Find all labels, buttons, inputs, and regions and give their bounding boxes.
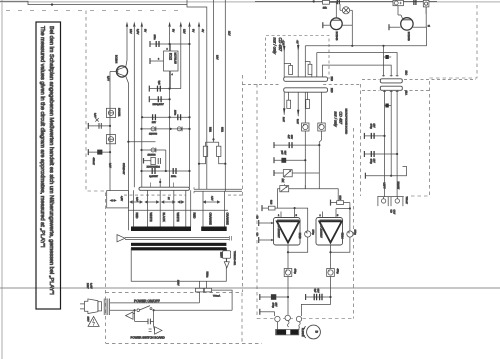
thermal switch TH1 — [223, 248, 231, 268]
svg-text:BC204B: BC204B — [335, 32, 338, 41]
capacitor pair bottom R — [306, 294, 331, 300]
svg-text:100µ: 100µ — [312, 230, 315, 236]
wire bus y45.8 to transistor — [305, 45, 426, 47]
svg-text:1mV: 1mV — [282, 117, 285, 122]
wire label-strip line — [128, 209, 228, 211]
wire thermal feed — [194, 189, 242, 191]
svg-text:21C: 21C — [404, 71, 407, 76]
wire pin 311.8 — [311, 75, 313, 77]
terminal t3 right — [365, 173, 392, 179]
capacitor at IC12 top — [150, 41, 191, 47]
core arrow symbol — [117, 235, 125, 242]
svg-text:0,1V: 0,1V — [109, 163, 112, 168]
svg-text:3µ3: 3µ3 — [158, 81, 161, 86]
DIN connector bar 21A — [380, 86, 402, 90]
input resistor R right channel — [331, 200, 350, 209]
transformer enclosure — [131, 248, 226, 281]
svg-text:0,6V: 0,6V — [94, 113, 97, 118]
node base1 — [109, 125, 111, 127]
wire line-out pin1 — [384, 90, 386, 196]
measure arrow 4 — [178, 201, 184, 203]
wire jack1 down — [276, 322, 278, 330]
winding bar primary — [131, 243, 226, 246]
svg-text:100n: 100n — [153, 35, 156, 41]
svg-text:CPL186/187: CPL186/187 — [319, 225, 322, 239]
wire output L to jack — [287, 277, 289, 315]
wire cap G down — [304, 131, 306, 189]
jack spring contact 2 — [287, 321, 289, 327]
measure arrow 3 — [162, 201, 175, 203]
more sections appended below — [88, 0, 230, 230]
IC12 MC78L05 regulator — [150, 44, 178, 89]
headphone symbol — [304, 325, 320, 339]
jack spring contact 3 — [299, 322, 300, 328]
svg-text:RED: RED — [135, 213, 139, 219]
mic terminal 2 — [274, 157, 306, 163]
wire pot to right channel — [289, 189, 339, 203]
diode row y150 — [140, 148, 165, 171]
electrolytic cap bottom L — [260, 294, 288, 300]
node top-right bus — [313, 0, 315, 2]
node cap row R — [329, 296, 331, 298]
node y45.8 b — [382, 45, 384, 47]
terminal bottom L2 — [260, 309, 275, 316]
wire line-out pin3 — [396, 90, 398, 196]
svg-text:4,5V: 4,5V — [120, 196, 123, 201]
measure arrow 1 — [130, 201, 142, 203]
svg-text:CPL186/187: CPL186/187 — [277, 225, 280, 239]
svg-text:470µ: 470µ — [370, 124, 373, 130]
pin arrow down C — [282, 92, 285, 122]
svg-text:63V: 63V — [284, 151, 287, 156]
svg-text:MC78L05: MC78L05 — [174, 53, 177, 65]
capacitor C_L1 — [99, 123, 101, 129]
svg-text:220V: 220V — [220, 252, 223, 258]
dashed line transformer top — [124, 194, 242, 196]
svg-text:CD 437: CD 437 — [339, 112, 343, 125]
wire into top connector — [159, 179, 161, 188]
output cap box L — [284, 269, 292, 277]
wire rail x226 — [224, 0, 226, 191]
svg-text:4,5V: 4,5V — [211, 196, 214, 201]
supply arrow rail 12V — [180, 22, 186, 89]
svg-text:R52: R52 — [208, 127, 211, 132]
wire DIN pin a — [383, 46, 385, 77]
diode row y129 — [140, 127, 190, 132]
svg-text:400mV: 400mV — [92, 158, 95, 166]
test point cross — [95, 118, 98, 121]
svg-text:LEFT: LEFT — [382, 183, 385, 190]
node feedback R — [349, 207, 351, 209]
svg-text:5V: 5V — [171, 29, 174, 32]
secondary pins — [133, 190, 190, 226]
svg-text:CD: CD — [256, 216, 259, 220]
svg-text:0,4W: 0,4W — [89, 283, 92, 289]
winding bar secondary left — [131, 227, 191, 232]
svg-text:POWER SWITCH BOARD: POWER SWITCH BOARD — [131, 335, 165, 339]
svg-text:RIGHT: RIGHT — [396, 182, 399, 190]
winding bar secondary right — [201, 227, 227, 232]
svg-text:IC14: IC14 — [340, 233, 344, 239]
node branch — [127, 141, 129, 143]
svg-text:9,5V: 9,5V — [136, 29, 139, 35]
wire top-left border segment — [0, 1, 187, 4]
svg-text:100µ: 100µ — [354, 230, 357, 236]
diode box top right — [423, 0, 429, 14]
svg-text:STAND-BY: STAND-BY — [122, 163, 125, 175]
dashed boundary transformer column — [242, 75, 244, 292]
connection arrow 2 — [149, 321, 162, 334]
capacitor x338 — [337, 0, 339, 4]
svg-text:12V: 12V — [183, 29, 186, 34]
svg-text:IC13: IC13 — [298, 233, 302, 239]
connection arrow left — [126, 310, 135, 321]
dashed boundary CD437 lower right — [360, 84, 362, 196]
svg-text:63V: 63V — [290, 135, 293, 140]
wire line-out pin2 — [390, 90, 392, 175]
electrolytic cap EL2 — [364, 151, 398, 157]
op-amp IC13 — [274, 218, 301, 246]
dashed boundary left board vertical — [86, 11, 106, 344]
resistor 22k top — [323, 0, 337, 9]
supply arrow rail 9,5V — [133, 22, 139, 188]
dashed boundary bottom-left horizontal — [106, 342, 263, 344]
jack body black left — [276, 330, 286, 335]
wire hook right — [391, 167, 406, 176]
svg-text:POWER ON/OFF: POWER ON/OFF — [134, 299, 160, 303]
volume pot upper section — [280, 186, 289, 192]
wire arrow down A — [282, 40, 286, 79]
svg-text:16V: 16V — [373, 159, 376, 164]
wire bus y65.1 — [323, 65, 392, 77]
svg-text:100n: 100n — [173, 110, 176, 116]
svg-text:WHITE: WHITE — [149, 213, 153, 222]
wire bus y52.5 — [317, 53, 397, 77]
core end ticks — [230, 236, 232, 241]
svg-text:nur / only: nur / only — [334, 112, 338, 128]
svg-text:ZD5601/ZD2: ZD5601/ZD2 — [147, 165, 161, 168]
capacitor C_L2 electrolytic — [97, 150, 102, 155]
connector bar 21B — [284, 77, 328, 81]
dashed boundary amp board bottom — [257, 318, 354, 320]
resistor R_A in box — [106, 108, 115, 117]
wire output L down — [287, 252, 289, 268]
dashed boundary right board — [408, 5, 477, 196]
terminal pin left2 — [87, 149, 89, 155]
svg-text:3Ω3: 3Ω3 — [269, 200, 272, 205]
wire feedback R — [349, 209, 351, 231]
supply arrow rail 4V — [198, 22, 204, 190]
resistor R_C vertical — [144, 157, 161, 164]
capacitor C162 2200u — [149, 96, 170, 102]
wire cap H down — [321, 131, 323, 140]
electrolytic cap EL1 — [364, 133, 385, 139]
svg-text:0,7V: 0,7V — [107, 76, 110, 81]
electrolytic cap box top right — [393, 0, 403, 10]
svg-text:68Ω: 68Ω — [221, 127, 224, 132]
DIN connector bar 21C — [380, 79, 402, 83]
svg-text:22V: 22V — [152, 121, 157, 124]
svg-text:21B: 21B — [330, 77, 333, 82]
svg-text:CD: CD — [389, 210, 392, 214]
wire branch y141.7 — [128, 141, 155, 143]
output cap box R — [327, 269, 335, 277]
supply arrow rail +15V — [126, 22, 132, 61]
svg-text:470µ: 470µ — [370, 159, 373, 165]
svg-text:4V: 4V — [201, 29, 204, 32]
transistor T3 BC204B — [323, 4, 353, 30]
pin wires amp R — [323, 209, 350, 218]
electrolytic circle cap R — [347, 230, 357, 238]
pin ticks DIN bottom — [383, 91, 398, 93]
wire pin 305 up — [304, 46, 306, 77]
pot gang dotted link — [283, 177, 285, 186]
resistor pair R52 — [198, 138, 227, 165]
wire pot left drop — [278, 189, 280, 208]
wire rail x207 — [187, 0, 207, 189]
wire thermal feed hooks — [193, 187, 195, 193]
lamp LA1 — [340, 4, 352, 46]
resistor hook B — [305, 62, 312, 75]
svg-text:THERMO-SW.: THERMO-SW. — [233, 251, 236, 266]
svg-text:CD: CD — [256, 233, 259, 237]
dashed boundary amp board right — [353, 128, 355, 319]
capacitor row y117 — [141, 114, 191, 120]
svg-text:470µ: 470µ — [294, 269, 297, 275]
dashed boundary CD437 upper box — [266, 36, 330, 80]
wire stub left1 — [88, 125, 110, 127]
capacitor mark DIN — [384, 55, 392, 59]
input terminal CD-L — [259, 220, 274, 226]
resistor hook F — [306, 92, 310, 108]
wire base column — [109, 72, 111, 191]
mic terminal 1 — [274, 142, 320, 148]
measure box B1 — [107, 191, 129, 208]
svg-text:BC204B: BC204B — [407, 32, 410, 41]
node output L — [287, 251, 289, 253]
wire rail x213 — [213, 0, 215, 139]
svg-text:100n: 100n — [171, 175, 177, 178]
wire from mic board into amp — [304, 185, 306, 189]
terminal pin left1 — [87, 123, 89, 129]
wire pin 316.8 up — [316, 53, 318, 77]
input resistor R303 left — [262, 205, 295, 211]
svg-text:nur / only: nur / only — [273, 38, 278, 55]
electrolytic cap box H — [318, 92, 325, 131]
input terminal CD-R — [259, 237, 274, 243]
node output R — [329, 251, 331, 253]
wire arrow down B — [296, 40, 300, 77]
svg-text:OUT: OUT — [392, 210, 395, 215]
page edge left — [1, 0, 3, 359]
wire fuse to switch — [212, 290, 233, 310]
svg-text:2200µ/16V: 2200µ/16V — [153, 103, 165, 106]
svg-text:240V: 240V — [177, 280, 180, 286]
node y45.8 a — [351, 45, 353, 47]
wire mains N — [110, 309, 135, 311]
svg-text:0V: 0V — [191, 29, 194, 32]
svg-text:-7V: -7V — [296, 40, 299, 44]
svg-text:1N4003: 1N4003 — [148, 153, 157, 156]
secondary connector bar — [139, 187, 189, 190]
wire output R down — [330, 252, 332, 268]
svg-text:470µ: 470µ — [336, 269, 339, 275]
capacitor mark DIN2 — [385, 104, 392, 108]
svg-text:T80mA: T80mA — [213, 295, 221, 298]
svg-text:-1,5V: -1,5V — [282, 40, 285, 46]
measure arrow 2 — [145, 201, 159, 203]
output pin amp R — [330, 245, 332, 252]
wire top-right bus — [255, 0, 437, 2]
svg-text:21A: 21A — [404, 91, 407, 96]
svg-text:BLACK: BLACK — [162, 213, 166, 222]
svg-text:780mV: 780mV — [405, 197, 408, 205]
node above connector — [159, 181, 161, 183]
wire output R down to jog — [301, 277, 330, 317]
dashed board boundary top-left — [6, 10, 185, 12]
supply arrow rail 8V — [141, 22, 147, 188]
mic terminal 3 + trimmer — [274, 170, 319, 177]
svg-text:16V: 16V — [215, 55, 218, 60]
supply arrow rail 5V — [168, 22, 174, 188]
svg-text:63V: 63V — [317, 289, 320, 294]
svg-text:230V: 230V — [86, 317, 89, 323]
headphone jack contact 3 — [296, 316, 301, 321]
diode D_B in box — [106, 135, 115, 144]
capacitor C160 pair top — [149, 86, 181, 92]
svg-text:IC12: IC12 — [168, 53, 172, 60]
svg-text:Bei den im Schaltplan angegebe: Bei den im Schaltplan angegebenen Meßwer… — [48, 26, 55, 295]
wire jack3 down — [298, 328, 300, 330]
note box frame — [36, 22, 61, 309]
capacitor across switch — [135, 310, 154, 324]
dashed chassis separation line — [243, 79, 477, 90]
svg-text:21D: 21D — [330, 88, 333, 93]
wire feedback join L — [288, 237, 308, 252]
line out socket — [377, 197, 403, 207]
node cap row L — [287, 296, 289, 298]
svg-text:3µ3/63V: 3µ3/63V — [149, 175, 158, 178]
svg-text:6,3V: 6,3V — [136, 197, 139, 202]
svg-text:MICROPHONE BOARD: MICROPHONE BOARD — [345, 109, 348, 135]
transistor T4 BC204B — [389, 7, 427, 46]
svg-text:RED: RED — [193, 213, 197, 219]
svg-text:16V: 16V — [373, 124, 376, 129]
electrolytic cap box G — [302, 92, 309, 131]
jack body outline — [276, 329, 299, 335]
svg-text:50Hz: 50Hz — [206, 272, 209, 279]
switch S1 — [134, 306, 233, 312]
connector bar 21D — [284, 88, 328, 92]
svg-text:8mV: 8mV — [296, 119, 299, 124]
right rail pins — [203, 191, 225, 226]
svg-text:3Ω3: 3Ω3 — [339, 196, 342, 201]
svg-text:470µ: 470µ — [272, 303, 275, 309]
op-amp IC14 — [316, 218, 343, 246]
supply arrow rail 0V — [188, 22, 194, 188]
svg-text:15V: 15V — [129, 29, 132, 34]
wire feedback L — [295, 208, 308, 230]
pin wires amp L — [281, 208, 295, 217]
svg-text:8V: 8V — [144, 29, 147, 32]
svg-text:16V: 16V — [275, 303, 278, 308]
resistor hook A — [284, 64, 292, 75]
fuse SI1 — [195, 288, 203, 292]
svg-text:1N4151: 1N4151 — [118, 108, 121, 117]
output pin amp L — [287, 245, 289, 252]
jack body black right — [290, 330, 298, 335]
node base2 — [109, 151, 111, 153]
wire transformer output pins — [200, 281, 207, 288]
svg-text:1N4003: 1N4003 — [149, 133, 158, 136]
pin ticks DIN top — [382, 75, 398, 77]
wire mains L — [110, 302, 200, 304]
resistor hook E — [287, 92, 291, 108]
capacitor row y171 — [140, 168, 190, 174]
measure arrow 5 — [203, 201, 219, 203]
wire 319 down — [319, 140, 321, 189]
svg-text:The measured values given in t: The measured values given in the circuit… — [39, 26, 46, 248]
dashed boundary power board — [106, 293, 243, 344]
page top edge — [0, 1, 500, 3]
svg-text:ORANGE: ORANGE — [226, 213, 230, 225]
node top bus — [51, 3, 53, 5]
svg-text:BC204: BC204 — [114, 55, 117, 64]
svg-text:WHITE: WHITE — [176, 213, 180, 222]
mains plug — [80, 299, 110, 316]
core lines — [125, 237, 229, 239]
thermal fuse SI2 — [204, 288, 211, 292]
dashed boundary amp board left — [256, 84, 258, 319]
headphone jack contact 2 — [285, 315, 290, 320]
node feedback L — [294, 207, 296, 209]
svg-text:ORANGE: ORANGE — [208, 213, 212, 225]
headphone jack contact 1 — [275, 316, 280, 321]
transistor T2 BC204 — [110, 60, 128, 230]
svg-text:KLINKE: KLINKE — [301, 328, 304, 337]
svg-text:240V: 240V — [86, 283, 89, 289]
warning triangle — [88, 316, 99, 326]
svg-text:21V: 21V — [227, 31, 230, 36]
page fold line horizontal — [0, 287, 500, 289]
capacitor x414.9 — [414, 0, 416, 5]
electrolytic circle cap L — [305, 230, 315, 238]
wire feedback join R — [331, 237, 350, 252]
wire stub left2 — [88, 151, 110, 153]
pin arrow down D — [296, 92, 299, 124]
